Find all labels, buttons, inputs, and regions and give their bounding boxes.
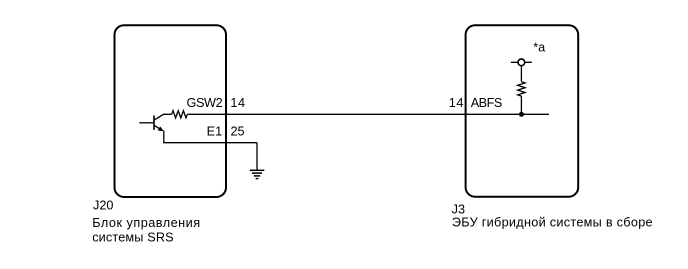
svg-text:E1: E1: [207, 124, 223, 138]
svg-text:GSW2: GSW2: [187, 96, 223, 110]
svg-text:25: 25: [231, 124, 245, 138]
svg-text:14: 14: [449, 96, 464, 110]
ground symbol: [250, 170, 265, 178]
svg-text:J3: J3: [452, 202, 465, 216]
resistor (ABFS pull-up, vertical zigzag): [518, 82, 525, 96]
wire emitter down: [163, 131, 165, 143]
wire E1 pin25 horizontal: [163, 142, 257, 144]
box J3 (hybrid ECU outline): [466, 25, 579, 197]
wire resistor to junction: [520, 96, 522, 114]
svg-text:ABFS: ABFS: [471, 96, 502, 110]
svg-text:Блок управления: Блок управления: [92, 216, 200, 230]
svg-text:ЭБУ гибридной системы в сборе: ЭБУ гибридной системы в сборе: [452, 215, 653, 229]
wire through terminal circle (right box): [511, 61, 532, 63]
svg-text:*a: *a: [533, 41, 546, 55]
transistor Q emitter arrowhead: [158, 126, 164, 131]
junction dot: [519, 112, 524, 117]
svg-text:14: 14: [230, 96, 245, 110]
transistor Q collector lead: [154, 114, 172, 120]
wire GSW2 pin14 to ABFS pin14 (main horizontal net): [187, 113, 549, 115]
wire down to ground: [256, 143, 258, 170]
resistor (GSW2 branch, horizontal zigzag): [172, 111, 188, 118]
wire transistor base lead: [139, 122, 154, 124]
svg-text:системы SRS: системы SRS: [92, 230, 174, 244]
svg-text:J20: J20: [93, 199, 113, 213]
box J20 (SRS control unit outline): [115, 25, 227, 197]
transistor Q (base bar): [153, 116, 155, 130]
wire circle to resistor: [520, 66, 522, 82]
terminal circle *a: [518, 59, 525, 66]
transistor Q emitter lead: [154, 125, 161, 129]
